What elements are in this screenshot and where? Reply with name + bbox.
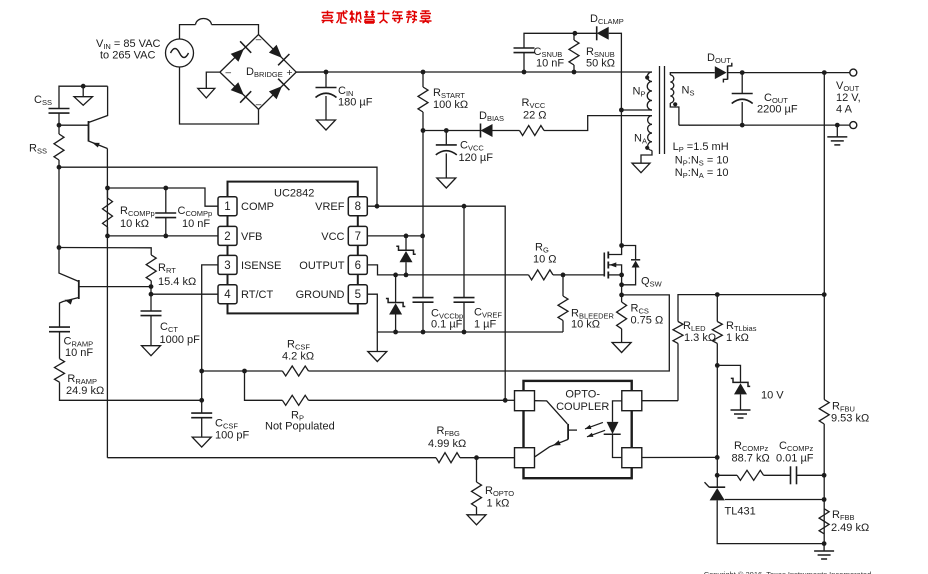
svg-text:4.99 kΩ: 4.99 kΩ bbox=[428, 438, 466, 450]
svg-text:2.49 kΩ: 2.49 kΩ bbox=[831, 522, 869, 534]
svg-text:OUTPUT: OUTPUT bbox=[299, 260, 345, 272]
svg-text:VREF: VREF bbox=[315, 201, 345, 213]
svg-text:1: 1 bbox=[224, 201, 230, 213]
svg-text:VCC: VCC bbox=[321, 231, 344, 243]
svg-text:9.53 kΩ: 9.53 kΩ bbox=[831, 413, 869, 425]
svg-text:15.4 kΩ: 15.4 kΩ bbox=[158, 276, 196, 288]
svg-text:–: – bbox=[256, 35, 262, 46]
svg-text:5: 5 bbox=[355, 289, 361, 301]
svg-text:COUPLER: COUPLER bbox=[556, 401, 609, 413]
svg-text:0.1 µF: 0.1 µF bbox=[431, 319, 463, 331]
svg-text:10 nF: 10 nF bbox=[182, 218, 210, 230]
svg-text:50 kΩ: 50 kΩ bbox=[586, 58, 615, 70]
svg-text:4: 4 bbox=[224, 289, 231, 301]
svg-text:+: + bbox=[286, 67, 292, 79]
svg-text:1.3 kΩ: 1.3 kΩ bbox=[684, 332, 716, 344]
svg-text:6: 6 bbox=[355, 260, 361, 272]
svg-text:2200 µF: 2200 µF bbox=[757, 104, 798, 116]
svg-text:1 µF: 1 µF bbox=[474, 319, 497, 331]
svg-text:2: 2 bbox=[224, 231, 230, 243]
svg-text:10 nF: 10 nF bbox=[536, 58, 564, 70]
svg-text:7: 7 bbox=[355, 231, 361, 243]
svg-text:RT/CT: RT/CT bbox=[241, 289, 273, 301]
svg-text:10 V: 10 V bbox=[761, 390, 784, 402]
svg-text:10 nF: 10 nF bbox=[65, 347, 93, 359]
svg-text:UC2842: UC2842 bbox=[274, 188, 314, 200]
svg-text:4 A: 4 A bbox=[836, 103, 853, 115]
svg-text:120 µF: 120 µF bbox=[459, 152, 494, 164]
svg-text:1 kΩ: 1 kΩ bbox=[487, 498, 510, 510]
svg-text:8: 8 bbox=[355, 201, 361, 213]
svg-text:OPTO-: OPTO- bbox=[565, 389, 600, 401]
svg-text:88.7 kΩ: 88.7 kΩ bbox=[732, 453, 770, 465]
svg-text:VFB: VFB bbox=[241, 231, 262, 243]
svg-text:–: – bbox=[226, 68, 232, 79]
svg-text:12 V,: 12 V, bbox=[836, 92, 861, 104]
svg-text:1 kΩ: 1 kΩ bbox=[726, 332, 749, 344]
svg-text:10 kΩ: 10 kΩ bbox=[571, 319, 600, 331]
svg-text:ISENSE: ISENSE bbox=[241, 260, 281, 272]
svg-text:–: – bbox=[256, 100, 262, 111]
svg-text:TL431: TL431 bbox=[725, 506, 756, 518]
svg-text:180 µF: 180 µF bbox=[338, 97, 373, 109]
svg-text:24.9 kΩ: 24.9 kΩ bbox=[66, 385, 104, 397]
svg-text:100 kΩ: 100 kΩ bbox=[433, 99, 468, 111]
svg-text:100 pF: 100 pF bbox=[215, 430, 250, 442]
svg-text:Not Populated: Not Populated bbox=[265, 421, 335, 433]
svg-text:22 Ω: 22 Ω bbox=[523, 110, 547, 122]
svg-text:COMP: COMP bbox=[241, 201, 274, 213]
svg-text:4.2 kΩ: 4.2 kΩ bbox=[282, 351, 314, 363]
svg-text:GROUND: GROUND bbox=[296, 289, 345, 301]
svg-text:to 265 VAC: to 265 VAC bbox=[100, 50, 155, 62]
svg-text:10 Ω: 10 Ω bbox=[533, 254, 557, 266]
svg-text:10 kΩ: 10 kΩ bbox=[120, 218, 149, 230]
svg-text:0.75 Ω: 0.75 Ω bbox=[631, 315, 664, 327]
svg-text:0.01 µF: 0.01 µF bbox=[776, 453, 814, 465]
svg-text:Copyright © 2016, Texas Instru: Copyright © 2016, Texas Instruments Inco… bbox=[704, 570, 872, 574]
svg-text:1000 pF: 1000 pF bbox=[160, 334, 201, 346]
svg-text:3: 3 bbox=[224, 260, 230, 272]
